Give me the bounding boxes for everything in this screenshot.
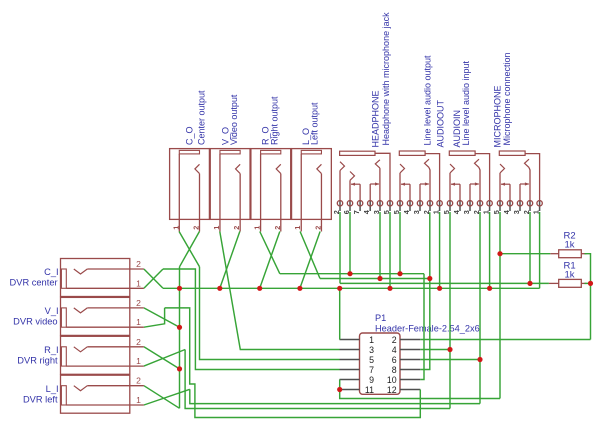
svg-text:12: 12: [387, 385, 397, 395]
C_O pin 2 number: [192, 226, 201, 230]
wire P1 pin9-11 to R2 column: [340, 380, 500, 399]
svg-text:Video output: Video output: [229, 94, 239, 145]
AUDIOIN pin 2: [477, 201, 482, 211]
wire L_O pin1 diagonal: [300, 232, 320, 279]
HEADPHONE pin 6: [347, 201, 352, 211]
wire GND trunk: [179, 267, 181, 409]
junction L_O ground: [297, 286, 302, 291]
wire AUDIOOUT pin2 to P1 pin8: [420, 212, 430, 369]
P1 pin 1 stub: [340, 339, 360, 341]
AUDIOOUT pin 1 number: [432, 210, 441, 214]
wire L_I pin1 to P1 pin6 rail: [190, 389, 480, 403]
svg-text:2: 2: [313, 226, 322, 230]
junction HEADPHONE pin3 net: [377, 276, 382, 281]
P1 pin 2 number: [392, 335, 397, 345]
svg-text:Header-Female-2.54_2x6: Header-Female-2.54_2x6: [375, 324, 480, 334]
V_O pin 1 number: [212, 226, 221, 230]
R_O name label: [261, 126, 271, 145]
junction HEADPHONE pin6 net: [347, 271, 352, 276]
HEADPHONE pin 7: [357, 201, 362, 211]
R_O pin 1 number: [253, 226, 262, 230]
svg-text:1: 1: [136, 317, 141, 327]
MICROPHONE pin 3: [517, 201, 522, 211]
AUDIOIN pin 1 number: [482, 210, 491, 214]
wire R_I pin1 diagonal: [144, 350, 185, 367]
wire AUDIOOUT pin5 drop: [399, 212, 401, 274]
P1 pin 5 stub: [340, 359, 360, 361]
svg-text:1: 1: [369, 335, 374, 345]
wire R_O net horizontal: [280, 273, 424, 275]
AUDIOIN value label: [461, 60, 471, 145]
junction MICROPHONE pin2 net: [527, 281, 532, 286]
MICROPHONE value label: [502, 52, 512, 145]
junction V_O ground: [217, 286, 222, 291]
svg-text:DVR left: DVR left: [23, 394, 58, 404]
svg-text:2: 2: [192, 226, 201, 230]
svg-text:3: 3: [512, 210, 521, 214]
R_I pin 2 number: [136, 337, 141, 347]
junction AUDIOOUT pin1 ground: [437, 286, 442, 291]
P1 pin 4 stub: [400, 349, 420, 351]
wire L_O pin2 to GND bus: [300, 232, 320, 289]
wire AUDIOIN pin1 to GND bus: [489, 212, 491, 288]
AUDIOOUT pin 3: [417, 201, 422, 211]
svg-text:6: 6: [392, 355, 397, 365]
V_I pin 1 number: [136, 317, 141, 327]
svg-text:Headphone with microphone jack: Headphone with microphone jack: [381, 12, 391, 146]
P1 pin 10 stub: [400, 379, 420, 381]
wire C_I pin1 to P1 pin7: [163, 269, 340, 370]
svg-text:L_I: L_I: [46, 384, 59, 394]
AUDIOIN pin 2 number: [472, 210, 481, 214]
AUDIOOUT pin 4 number: [402, 209, 411, 214]
P1 pin 12 stub: [400, 389, 420, 391]
connector HEADPHONE jack body: [340, 151, 390, 201]
P1 name label: [375, 313, 386, 323]
R2 name label: [564, 230, 576, 241]
V_I pin 2 number: [136, 298, 141, 308]
HEADPHONE pin 7 number: [352, 210, 361, 214]
V_O value label: [229, 94, 239, 145]
connector L_I jack body: [61, 375, 144, 413]
P1 pin 11 number: [365, 385, 374, 395]
junction R2 MICROPHONE pin5 net: [497, 251, 502, 256]
junction R_O ground: [257, 286, 262, 291]
P1 pin 4 number: [392, 345, 397, 355]
L_I pin 2 number: [136, 376, 141, 386]
C_I pin 2 number: [136, 259, 141, 269]
C_O pin 1 number: [171, 226, 180, 230]
svg-text:7: 7: [369, 365, 374, 375]
wire AUDIOIN pin5 through P1 pin4: [449, 212, 451, 409]
wire C_O pin1 diagonal: [179, 232, 199, 267]
svg-text:V_I: V_I: [45, 306, 59, 316]
P1 pin 8 stub: [400, 369, 420, 371]
svg-text:9: 9: [369, 375, 374, 385]
wire L_I pin2 to GND trunk: [144, 386, 180, 409]
P1 pin 12 number: [387, 385, 397, 395]
wire V_I pin1 to P1 pin12: [165, 308, 421, 418]
svg-text:4: 4: [392, 345, 397, 355]
svg-text:2: 2: [136, 259, 141, 269]
connector AUDIOIN jack body: [449, 151, 489, 201]
wire L_I pin1 diagonal: [144, 389, 190, 405]
P1 pin 3 stub: [340, 349, 360, 351]
connector P1 body: [360, 333, 401, 394]
wire V_O pin1 diagonal to P1 pin3: [220, 232, 340, 350]
V_I name label: [45, 306, 59, 316]
R_I name label: [44, 345, 58, 355]
L_O pin 2 number: [313, 226, 322, 230]
P1 pin 7 number: [369, 365, 374, 375]
AUDIOIN pin 3 number: [462, 210, 471, 214]
MICROPHONE pin 1: [537, 201, 542, 211]
wire R_O net riser to P1 pin10: [420, 274, 424, 380]
AUDIOIN pin 4 number: [452, 209, 461, 214]
connector AUDIOOUT jack body: [399, 151, 439, 201]
connector C_I jack body: [61, 259, 144, 297]
wire C_I pin1 diagonal: [144, 269, 163, 288]
svg-text:1k: 1k: [565, 269, 575, 280]
wire C_I pin2 to GND bus: [144, 269, 163, 288]
wire R2 left lead wire: [500, 253, 550, 255]
R_O pin 2 number: [273, 226, 282, 230]
connector MICROPHONE jack body: [499, 151, 539, 201]
svg-text:C_O: C_O: [184, 126, 194, 145]
resistor R1 body: [549, 279, 587, 287]
R_I pin 1 number: [136, 356, 141, 366]
svg-text:3: 3: [412, 210, 421, 214]
HEADPHONE pin 6 number: [342, 210, 351, 214]
svg-text:P1: P1: [375, 313, 386, 323]
junction AUDIOOUT pin2 net: [427, 276, 432, 281]
AUDIOIN pin 1: [487, 201, 492, 211]
HEADPHONE pin 3: [377, 201, 382, 211]
wire GND bus: [163, 287, 540, 289]
wire R1 net horizontal: [340, 282, 549, 284]
HEADPHONE pin 2 number: [332, 210, 341, 214]
AUDIOOUT pin 5: [397, 201, 402, 211]
svg-text:Left output: Left output: [309, 102, 319, 145]
P1 pin 9 stub: [340, 379, 360, 381]
svg-text:2: 2: [136, 376, 141, 386]
svg-text:Microphone connection: Microphone connection: [502, 52, 512, 145]
wire V_I pin2 to GND trunk: [144, 308, 180, 327]
svg-text:7: 7: [352, 210, 361, 214]
wire R_I pin1 to AI pin5 rail: [185, 350, 450, 409]
L_I name label: [46, 384, 59, 394]
P1 pin 5 number: [369, 355, 374, 365]
wire C_O pin1 to P1 pin5: [200, 267, 340, 360]
svg-text:AUDIOOUT: AUDIOOUT: [436, 99, 446, 147]
C_O value label: [196, 90, 206, 145]
resistor R2 body: [550, 250, 586, 258]
AUDIOIN name label: [452, 110, 462, 148]
wire MICROPHONE pin1 to GND bus: [539, 212, 541, 288]
junction R_I pin2 ground: [177, 366, 182, 371]
svg-text:1: 1: [136, 395, 141, 405]
svg-text:Line level audio output: Line level audio output: [423, 55, 433, 146]
svg-text:Right output: Right output: [269, 96, 279, 145]
wire HEADPHONE pin5 to GND bus: [389, 212, 391, 288]
connector L_O jack body: [292, 149, 332, 232]
svg-text:1: 1: [136, 278, 141, 288]
C_O name label: [184, 126, 194, 145]
HEADPHONE value label: [381, 12, 391, 146]
V_I value label: [13, 317, 57, 327]
AUDIOOUT pin 5 number: [392, 210, 401, 214]
svg-text:1k: 1k: [565, 240, 575, 251]
junction AUDIOIN pin1 ground: [487, 286, 492, 291]
wire MICROPHONE pin5 to P1 pin9 column: [499, 212, 501, 399]
MICROPHONE pin 2: [527, 201, 532, 211]
R_I value label: [17, 355, 58, 365]
svg-text:1: 1: [171, 226, 180, 230]
svg-text:2: 2: [136, 298, 141, 308]
junction P1 pin4 net: [447, 347, 452, 352]
AUDIOOUT pin 2: [427, 201, 432, 211]
MICROPHONE pin 4: [507, 201, 512, 211]
HEADPHONE pin 4 number: [362, 209, 371, 214]
wire P1 pin4 stub wire: [420, 349, 450, 351]
HEADPHONE name label: [370, 90, 380, 147]
AUDIOOUT pin 1: [437, 201, 442, 211]
junction P1 pin6 net: [477, 357, 482, 362]
V_O name label: [221, 127, 231, 145]
wire R1 right stub: [585, 282, 591, 284]
HEADPHONE pin 5: [387, 201, 392, 211]
wire GND bus to P1 pin1: [339, 288, 341, 339]
R1 name label: [564, 261, 576, 272]
P1 pin 7 stub: [340, 369, 360, 371]
P1 pin 1 number: [369, 335, 374, 345]
wire P1 pin2 to resistors: [420, 339, 590, 341]
svg-text:R_I: R_I: [44, 345, 58, 355]
svg-text:HEADPHONE: HEADPHONE: [370, 90, 380, 147]
svg-text:8: 8: [392, 365, 397, 375]
connector R_O jack body: [251, 149, 291, 232]
connector V_I jack body: [61, 297, 144, 335]
MICROPHONE pin 3 number: [512, 210, 521, 214]
junction R1 R2 right net: [588, 281, 593, 286]
svg-text:3: 3: [462, 210, 471, 214]
MICROPHONE pin 2 number: [522, 210, 531, 214]
L_O name label: [301, 128, 311, 145]
wire HEADPHONE pin6 drop: [349, 212, 351, 274]
wire V_O pin2 to GND bus: [220, 232, 240, 289]
svg-text:1: 1: [212, 226, 221, 230]
MICROPHONE pin 4 number: [502, 209, 511, 214]
svg-text:2: 2: [136, 337, 141, 347]
HEADPHONE pin 5 number: [382, 210, 391, 214]
V_O pin 2 number: [232, 226, 241, 230]
AUDIOIN pin 5 number: [442, 210, 451, 214]
svg-text:Line level audio input: Line level audio input: [461, 60, 471, 145]
svg-text:DVR center: DVR center: [10, 278, 58, 288]
C_I name label: [44, 267, 58, 277]
svg-text:1: 1: [253, 226, 262, 230]
svg-text:3: 3: [369, 345, 374, 355]
AUDIOOUT name label: [436, 99, 446, 147]
wire L_O net horizontal: [320, 278, 430, 280]
wire C_O pin2 to GND trunk: [180, 232, 200, 267]
AUDIOIN pin 3: [467, 201, 472, 211]
MICROPHONE pin 5: [497, 201, 502, 211]
junction C_O ground: [177, 286, 182, 291]
wire R2 R1 right join: [585, 254, 591, 340]
wire P1 pin6 stub wire: [420, 359, 480, 361]
AUDIOOUT pin 4: [407, 201, 412, 211]
R_O value label: [269, 96, 279, 145]
junction AUDIOOUT pin5 net: [397, 271, 402, 276]
L_O pin 1 number: [293, 226, 302, 230]
L_I value label: [23, 394, 58, 404]
AUDIOOUT pin 2 number: [422, 210, 431, 214]
R2 value label: [565, 240, 575, 251]
wire HEADPHONE pin2 drop: [339, 212, 341, 283]
svg-text:2: 2: [273, 226, 282, 230]
junction HEADPHONE pin5 ground: [387, 286, 392, 291]
C_I value label: [10, 278, 58, 288]
C_I pin 1 number: [136, 278, 141, 288]
connector R_I jack body: [61, 336, 144, 374]
connector C_O jack body: [170, 149, 210, 232]
P1 pin 2 stub: [400, 339, 420, 341]
svg-text:2: 2: [232, 226, 241, 230]
svg-text:1: 1: [136, 356, 141, 366]
MICROPHONE pin 5 number: [492, 210, 501, 214]
wire V_I pin1 diagonal: [144, 308, 165, 327]
HEADPHONE pin 4: [368, 201, 373, 211]
MICROPHONE name label: [492, 85, 502, 147]
wire MICROPHONE pin2 drop: [529, 212, 531, 283]
wire R_O pin1 diagonal: [260, 232, 280, 274]
svg-text:DVR video: DVR video: [13, 317, 57, 327]
svg-text:2: 2: [392, 335, 397, 345]
svg-text:Center output: Center output: [196, 90, 206, 145]
connector V_O jack body: [210, 149, 250, 232]
MICROPHONE pin 1 number: [532, 210, 541, 214]
AUDIOIN pin 4: [457, 201, 462, 211]
P1 pin 6 stub: [400, 359, 420, 361]
AUDIOIN pin 5: [447, 201, 452, 211]
svg-text:11: 11: [365, 385, 374, 395]
P1 pin 6 number: [392, 355, 397, 365]
wire HEADPHONE pin3 drop: [379, 212, 381, 279]
wire AUDIOIN pin2 through P1 pin6: [479, 212, 481, 404]
HEADPHONE pin 2: [337, 201, 342, 211]
L_O value label: [309, 102, 319, 145]
P1 pin 11 stub: [340, 389, 360, 391]
R1 value label: [565, 269, 575, 280]
svg-text:5: 5: [369, 355, 374, 365]
svg-text:10: 10: [387, 375, 397, 385]
wire R_O pin2 to GND bus: [260, 232, 280, 289]
P1 pin 9 number: [369, 375, 374, 385]
P1 pin 3 number: [369, 345, 374, 355]
AUDIOOUT pin 3 number: [412, 210, 421, 214]
L_I pin 1 number: [136, 395, 141, 405]
wire R_I pin2 to GND trunk: [144, 347, 180, 369]
junction P1 pin11 net: [337, 387, 342, 392]
AUDIOOUT value label: [423, 55, 433, 146]
wire AUDIOOUT pin1 to GND bus: [439, 212, 441, 288]
P1 value label: [375, 324, 480, 334]
junction V_I pin2 ground: [177, 325, 182, 330]
HEADPHONE pin 3 number: [372, 210, 381, 214]
P1 pin 8 number: [392, 365, 397, 375]
svg-text:C_I: C_I: [44, 267, 58, 277]
P1 pin 10 number: [387, 375, 397, 385]
svg-text:1: 1: [293, 226, 302, 230]
svg-text:DVR right: DVR right: [17, 355, 58, 365]
junction P1 pin1 ground: [337, 286, 342, 291]
